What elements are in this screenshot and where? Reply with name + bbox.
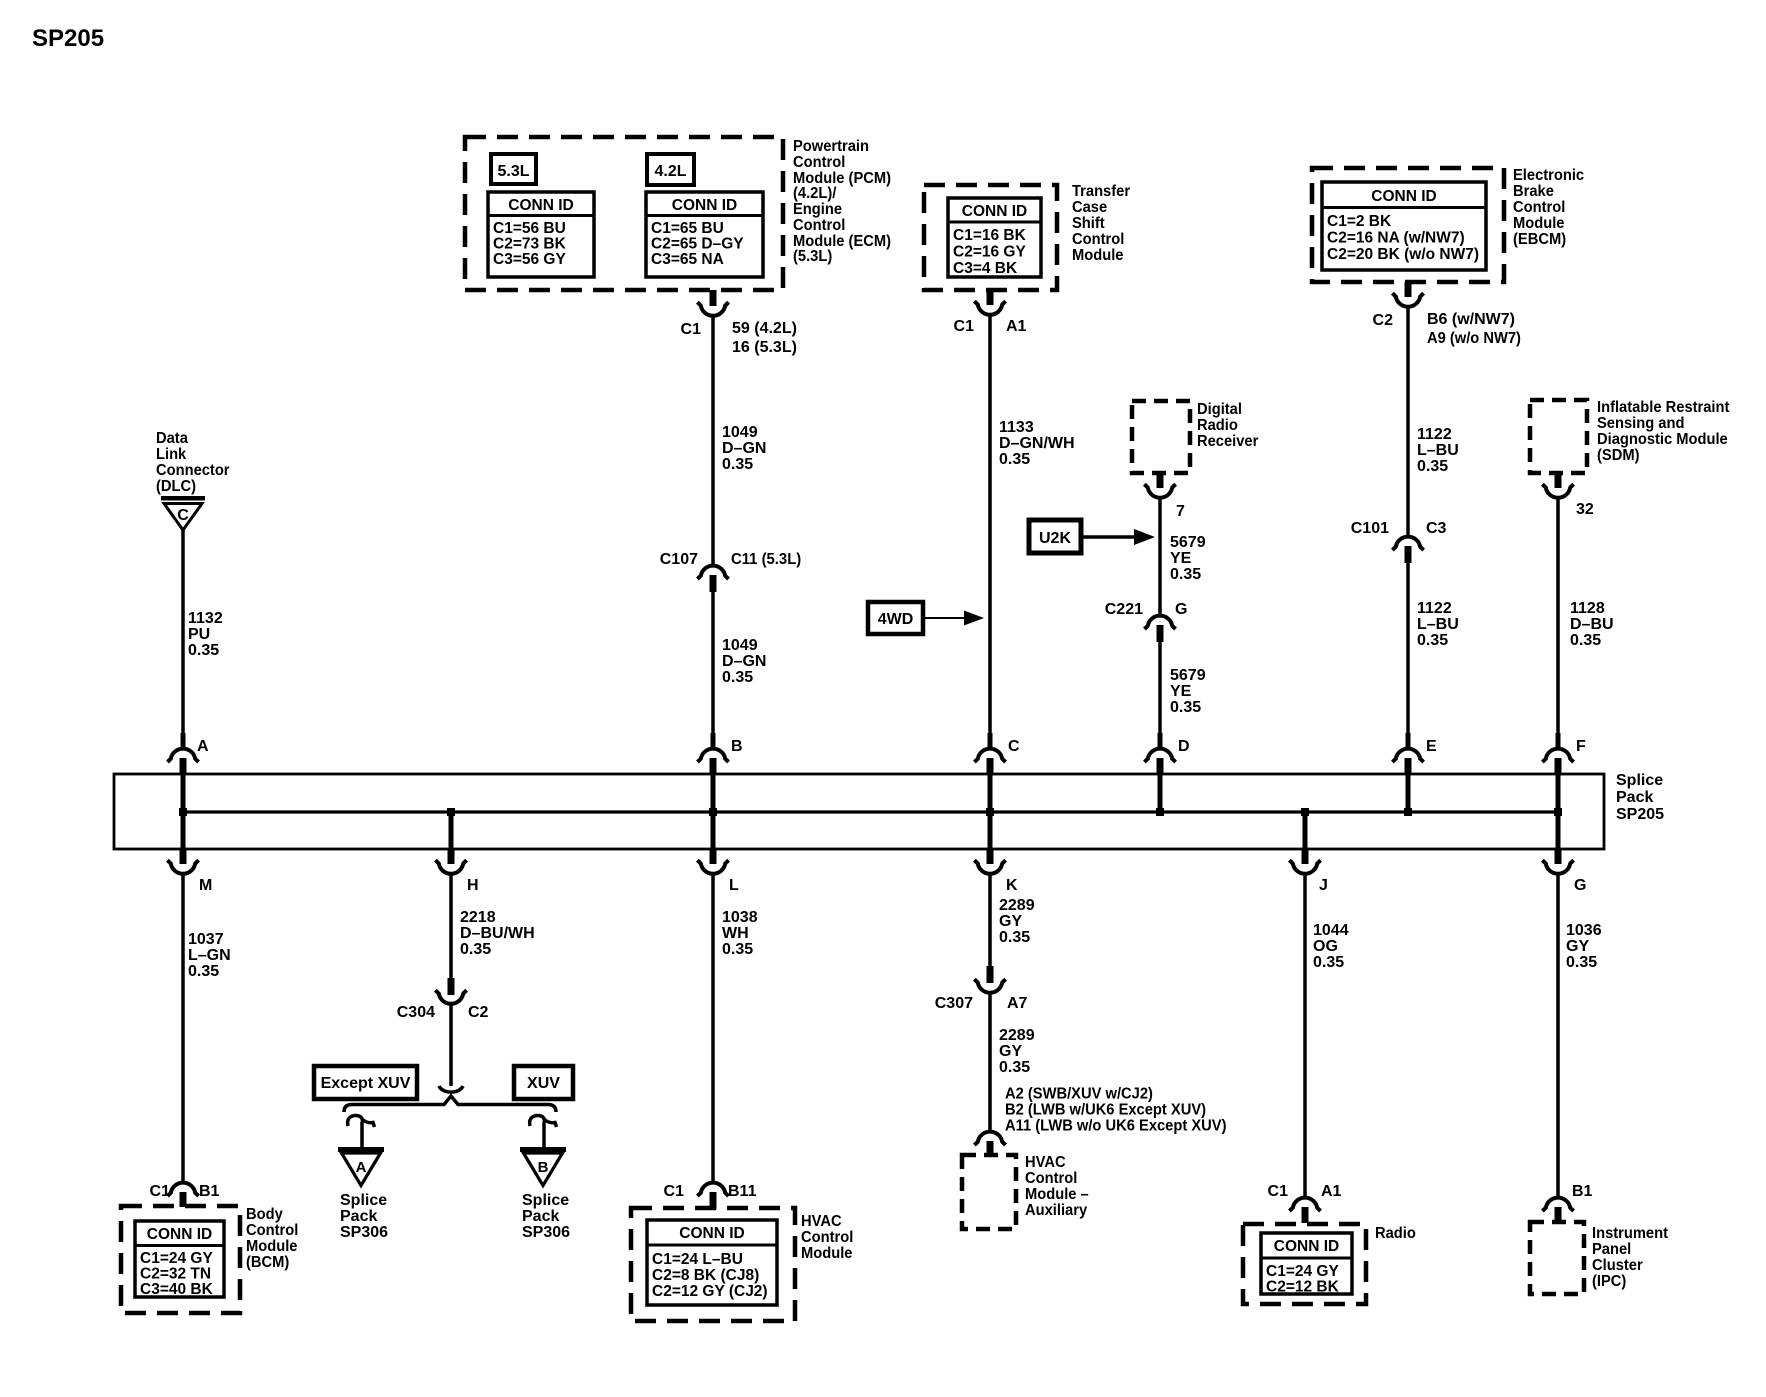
- svg-text:A11 (LWB w/o UK6 Except XUV): A11 (LWB w/o UK6 Except XUV): [1005, 1117, 1226, 1135]
- svg-text:C304: C304: [397, 1004, 435, 1021]
- wire 2218 D-BU/WH (H to C304): [449, 876, 453, 979]
- svg-text:C2=32 TN: C2=32 TN: [140, 1266, 211, 1283]
- svg-text:C3=65 NA: C3=65 NA: [651, 251, 724, 268]
- svg-text:2289: 2289: [999, 1027, 1035, 1044]
- module IPC dashed box: [1530, 1222, 1584, 1294]
- splice pack SP205 outer box: [114, 774, 1604, 849]
- svg-text:0.35: 0.35: [722, 456, 753, 473]
- svg-text:D–BU: D–BU: [1570, 616, 1614, 633]
- connector C304 / C2: [448, 978, 455, 995]
- connector F at splice pack top: [1556, 733, 1561, 747]
- svg-text:C2=16 GY: C2=16 GY: [953, 244, 1026, 261]
- wire 1122 L-BU upper (EBCM to C101): [1406, 309, 1410, 536]
- wire 2289 GY lower (C307 to HVAC aux): [988, 995, 992, 1131]
- wire stub D to bus: [1158, 774, 1163, 812]
- CONN ID table (4.2L): [646, 192, 763, 277]
- svg-text:2218: 2218: [460, 909, 496, 926]
- svg-text:C307: C307: [935, 995, 973, 1012]
- svg-text:Module: Module: [1072, 246, 1124, 264]
- connector C2 at EBCM: [1405, 282, 1412, 297]
- svg-text:C107: C107: [660, 551, 698, 568]
- svg-text:Pack: Pack: [340, 1208, 377, 1225]
- connector E at splice pack top: [1406, 733, 1411, 747]
- svg-text:C1=65 BU: C1=65 BU: [651, 220, 724, 237]
- svg-text:G: G: [1574, 877, 1586, 894]
- svg-text:0.35: 0.35: [1570, 632, 1601, 649]
- callout 4WD box: [868, 602, 923, 634]
- callout U2K box: [1029, 520, 1081, 553]
- svg-text:C2: C2: [468, 1004, 489, 1021]
- branch overbrace: [344, 1096, 556, 1112]
- arrow U2K to wire: [1081, 535, 1136, 539]
- flag to splice pack A: [348, 1115, 375, 1127]
- svg-text:(5.3L): (5.3L): [793, 247, 832, 265]
- wire 1049 D-GN lower (C107 to splice B): [711, 592, 715, 740]
- callout XUV box: [514, 1066, 573, 1099]
- splice pack bus line: [183, 810, 1558, 813]
- module Transfer Case Shift Control dashed box: [924, 185, 1057, 290]
- svg-text:1044: 1044: [1313, 922, 1349, 939]
- svg-text:Splice: Splice: [522, 1192, 569, 1209]
- svg-text:SP205: SP205: [32, 25, 104, 52]
- wire through bar B-L: [711, 774, 716, 849]
- svg-text:Except XUV: Except XUV: [321, 1075, 411, 1092]
- svg-text:B1: B1: [1572, 1183, 1593, 1200]
- svg-text:U2K: U2K: [1039, 530, 1071, 547]
- svg-text:0.35: 0.35: [999, 451, 1030, 468]
- svg-text:C3: C3: [1426, 520, 1447, 537]
- svg-text:J: J: [1319, 877, 1328, 894]
- junction node A/M on bus: [179, 808, 187, 816]
- svg-text:CONN ID: CONN ID: [672, 197, 737, 214]
- svg-text:2289: 2289: [999, 897, 1035, 914]
- svg-text:A9 (w/o NW7): A9 (w/o NW7): [1427, 329, 1521, 347]
- connector B1 at IPC: [1542, 1198, 1573, 1211]
- svg-text:1122: 1122: [1417, 426, 1452, 443]
- svg-text:C2=8 BK (CJ8): C2=8 BK (CJ8): [652, 1267, 759, 1284]
- svg-text:C2=12 BK: C2=12 BK: [1266, 1279, 1340, 1296]
- callout Except XUV box: [314, 1066, 417, 1099]
- svg-text:0.35: 0.35: [188, 642, 219, 659]
- module HVAC aux dashed box: [962, 1155, 1016, 1229]
- svg-text:4WD: 4WD: [878, 611, 914, 628]
- svg-text:5.3L: 5.3L: [497, 163, 529, 180]
- svg-text:C3=40 BK: C3=40 BK: [140, 1281, 214, 1298]
- svg-text:C1: C1: [150, 1183, 171, 1200]
- module radio dashed box: [1243, 1224, 1366, 1304]
- wire 1132 PU (DLC to splice A): [181, 530, 185, 740]
- svg-text:(BCM): (BCM): [246, 1253, 289, 1271]
- wire 1036 GY (G to IPC): [1556, 876, 1560, 1197]
- svg-text:L–GN: L–GN: [188, 947, 231, 964]
- junction node C/K on bus: [986, 808, 994, 816]
- svg-text:OG: OG: [1313, 938, 1338, 955]
- svg-text:C2=20 BK (w/o NW7): C2=20 BK (w/o NW7): [1327, 246, 1479, 263]
- svg-text:1122: 1122: [1417, 600, 1452, 617]
- svg-text:16 (5.3L): 16 (5.3L): [732, 339, 797, 356]
- svg-text:Module: Module: [801, 1244, 853, 1262]
- wire 1037 L-GN (M to BCM): [181, 876, 185, 1182]
- flag to splice pack B: [530, 1115, 557, 1127]
- svg-text:C1=24 L–BU: C1=24 L–BU: [652, 1251, 743, 1268]
- svg-text:C: C: [1008, 738, 1020, 755]
- svg-text:5679: 5679: [1170, 534, 1206, 551]
- connector J at splice pack bottom: [1302, 849, 1309, 864]
- svg-text:GY: GY: [1566, 938, 1589, 955]
- connector C1 at PCM (pins 59/16): [710, 290, 717, 306]
- svg-text:Splice: Splice: [1616, 772, 1663, 789]
- svg-text:L–BU: L–BU: [1417, 442, 1459, 459]
- svg-text:32: 32: [1576, 501, 1594, 518]
- svg-text:C: C: [177, 507, 189, 524]
- svg-text:K: K: [1006, 877, 1018, 894]
- wire 1038 WH (L to HVAC): [711, 876, 715, 1182]
- wire through bar C-K: [988, 774, 993, 849]
- svg-text:F: F: [1576, 738, 1586, 755]
- svg-text:1128: 1128: [1570, 600, 1605, 617]
- svg-text:PU: PU: [188, 626, 210, 643]
- svg-text:(SDM): (SDM): [1597, 446, 1639, 464]
- svg-text:1049: 1049: [722, 424, 758, 441]
- svg-text:Pack: Pack: [1616, 789, 1653, 806]
- svg-text:0.35: 0.35: [188, 963, 219, 980]
- svg-text:E: E: [1426, 738, 1437, 755]
- svg-text:Auxiliary: Auxiliary: [1025, 1201, 1088, 1219]
- connector C107 / C11 (5.3L): [697, 566, 728, 579]
- svg-text:C1=56 BU: C1=56 BU: [493, 220, 566, 237]
- connector C101 / C3: [1392, 537, 1423, 550]
- svg-text:0.35: 0.35: [1417, 458, 1448, 475]
- connector C1/A1 at transfer case: [987, 290, 994, 305]
- svg-text:(DLC): (DLC): [156, 477, 196, 495]
- wire stub J to bus: [1303, 812, 1308, 849]
- svg-text:0.35: 0.35: [722, 669, 753, 686]
- wire end connector at branch: [439, 1086, 463, 1092]
- arrow 4WD to wire C: [923, 617, 966, 619]
- svg-text:D: D: [1178, 738, 1190, 755]
- svg-text:1037: 1037: [188, 931, 224, 948]
- svg-text:B6 (w/NW7): B6 (w/NW7): [1427, 311, 1515, 328]
- connector C307 / A7: [987, 966, 994, 983]
- junction node F/G on bus: [1554, 808, 1562, 816]
- module BCM dashed box: [121, 1206, 240, 1313]
- connector pin 32 at SDM: [1555, 473, 1562, 488]
- svg-text:(IPC): (IPC): [1592, 1272, 1626, 1290]
- svg-text:L–BU: L–BU: [1417, 616, 1459, 633]
- svg-text:GY: GY: [999, 913, 1022, 930]
- svg-text:A1: A1: [1006, 318, 1027, 335]
- junction node E on bus: [1404, 808, 1412, 816]
- connector C1/B11 at HVAC: [697, 1183, 728, 1196]
- connector L at splice pack bottom: [710, 849, 717, 864]
- DLC triangle C symbol: [161, 496, 205, 501]
- module SDM dashed box: [1530, 400, 1587, 473]
- wire through bar A-M: [181, 774, 186, 849]
- svg-text:(EBCM): (EBCM): [1513, 230, 1566, 248]
- svg-text:A1: A1: [1321, 1183, 1342, 1200]
- svg-text:0.35: 0.35: [999, 929, 1030, 946]
- svg-text:Receiver: Receiver: [1197, 432, 1258, 450]
- wire 2289 GY upper (K to C307): [988, 876, 992, 968]
- svg-text:Radio: Radio: [1375, 1224, 1416, 1242]
- svg-text:B1: B1: [199, 1183, 220, 1200]
- svg-text:SP205: SP205: [1616, 806, 1664, 823]
- junction node H on bus: [447, 808, 455, 816]
- triangle A (splice pack SP306): [338, 1147, 384, 1152]
- svg-text:1036: 1036: [1566, 922, 1602, 939]
- svg-text:XUV: XUV: [527, 1075, 560, 1092]
- svg-text:H: H: [467, 877, 479, 894]
- svg-text:YE: YE: [1170, 683, 1192, 700]
- triangle B (splice pack SP306): [520, 1147, 566, 1152]
- wire through bar F-G: [1556, 774, 1561, 849]
- svg-text:CONN ID: CONN ID: [1371, 188, 1436, 205]
- connector D at splice pack top: [1158, 733, 1163, 747]
- svg-text:0.35: 0.35: [1170, 566, 1201, 583]
- wire stub E to bus: [1406, 774, 1411, 812]
- svg-text:0.35: 0.35: [1417, 632, 1448, 649]
- svg-text:YE: YE: [1170, 550, 1192, 567]
- junction node B/L on bus: [709, 808, 717, 816]
- svg-text:A: A: [356, 1159, 367, 1176]
- connector G at splice pack bottom: [1555, 849, 1562, 864]
- CONN ID table (5.3L): [488, 192, 594, 277]
- svg-text:7: 7: [1176, 503, 1185, 520]
- svg-text:SP306: SP306: [522, 1224, 570, 1241]
- svg-text:C1: C1: [664, 1183, 685, 1200]
- svg-text:0.35: 0.35: [1566, 954, 1597, 971]
- svg-text:C3=56 GY: C3=56 GY: [493, 251, 566, 268]
- svg-text:GY: GY: [999, 1043, 1022, 1060]
- svg-text:5679: 5679: [1170, 667, 1206, 684]
- svg-text:D–GN: D–GN: [722, 440, 766, 457]
- svg-text:M: M: [199, 877, 212, 894]
- svg-text:1038: 1038: [722, 909, 758, 926]
- wire 1044 OG (J to radio): [1303, 876, 1307, 1197]
- svg-text:B: B: [731, 738, 743, 755]
- svg-text:CONN ID: CONN ID: [147, 1226, 212, 1243]
- svg-text:C3=4 BK: C3=4 BK: [953, 260, 1018, 277]
- svg-text:0.35: 0.35: [460, 941, 491, 958]
- wire 1049 D-GN upper (PCM C1 to C107): [711, 318, 715, 565]
- connector H at splice pack bottom: [448, 849, 455, 864]
- svg-text:C1=16 BK: C1=16 BK: [953, 227, 1027, 244]
- svg-text:C1: C1: [681, 321, 702, 338]
- module Digital Radio Receiver dashed box: [1132, 401, 1190, 473]
- wire 1128 D-BU (SDM to splice F): [1556, 500, 1560, 741]
- connector B at splice pack top: [711, 733, 716, 747]
- svg-text:CONN ID: CONN ID: [1274, 1238, 1339, 1255]
- svg-text:WH: WH: [722, 925, 749, 942]
- connector K at splice pack bottom: [987, 849, 994, 864]
- module EBCM dashed box: [1312, 168, 1504, 282]
- label 5.3L box: [491, 154, 536, 184]
- svg-text:C1=24 GY: C1=24 GY: [1266, 1263, 1339, 1280]
- wire 5679 YE upper (receiver to C221): [1158, 500, 1162, 615]
- wire C2 to branch point: [449, 1006, 453, 1087]
- svg-text:0.35: 0.35: [1313, 954, 1344, 971]
- svg-text:0.35: 0.35: [722, 941, 753, 958]
- module PCM/ECM dashed box: [465, 137, 783, 290]
- svg-text:59 (4.2L): 59 (4.2L): [732, 320, 797, 337]
- CONN ID table (transfer case): [948, 198, 1041, 277]
- connector C at splice pack top: [988, 733, 993, 747]
- svg-text:A7: A7: [1007, 995, 1028, 1012]
- svg-text:D–BU/WH: D–BU/WH: [460, 925, 535, 942]
- svg-text:L: L: [729, 877, 739, 894]
- connector A at splice pack top: [181, 733, 186, 747]
- svg-text:B: B: [538, 1159, 549, 1176]
- svg-text:C221: C221: [1105, 601, 1143, 618]
- svg-text:CONN ID: CONN ID: [679, 1225, 744, 1242]
- label 4.2L box: [647, 154, 694, 185]
- svg-text:1133: 1133: [999, 419, 1034, 436]
- svg-text:C2=73 BK: C2=73 BK: [493, 236, 567, 253]
- svg-text:1132: 1132: [188, 610, 223, 627]
- svg-text:C1: C1: [954, 318, 975, 335]
- CONN ID table (BCM): [135, 1221, 224, 1297]
- connector pin 7 at digital radio receiver: [1157, 473, 1164, 488]
- svg-text:C11 (5.3L): C11 (5.3L): [731, 551, 801, 569]
- connector C1/B1 at BCM: [167, 1183, 198, 1196]
- CONN ID table (radio): [1261, 1233, 1352, 1294]
- svg-text:C1: C1: [1268, 1183, 1289, 1200]
- connector at HVAC aux: [974, 1132, 1005, 1145]
- svg-text:SP306: SP306: [340, 1224, 388, 1241]
- svg-text:0.35: 0.35: [1170, 699, 1201, 716]
- junction node D on bus: [1156, 808, 1164, 816]
- svg-text:4.2L: 4.2L: [654, 163, 686, 180]
- svg-text:CONN ID: CONN ID: [508, 197, 573, 214]
- svg-text:0.35: 0.35: [999, 1059, 1030, 1076]
- wire 1122 L-BU lower (C101 to splice E): [1406, 563, 1410, 740]
- junction node J on bus: [1301, 808, 1309, 816]
- svg-text:B11: B11: [728, 1183, 757, 1200]
- svg-text:C2=65 D–GY: C2=65 D–GY: [651, 236, 744, 253]
- svg-text:C2=12 GY (CJ2): C2=12 GY (CJ2): [652, 1283, 768, 1300]
- CONN ID table (EBCM): [1322, 182, 1486, 270]
- connector M at splice pack bottom: [180, 849, 187, 864]
- svg-text:C1=24 GY: C1=24 GY: [140, 1250, 213, 1267]
- wire 1133 D-GN/WH (transfer case to splice C): [988, 317, 992, 741]
- module HVAC control dashed box: [631, 1208, 795, 1321]
- svg-text:Splice: Splice: [340, 1192, 387, 1209]
- svg-text:1049: 1049: [722, 637, 758, 654]
- svg-text:Pack: Pack: [522, 1208, 559, 1225]
- CONN ID table (HVAC): [647, 1220, 777, 1305]
- svg-text:C1=2 BK: C1=2 BK: [1327, 213, 1392, 230]
- svg-text:D–GN/WH: D–GN/WH: [999, 435, 1075, 452]
- svg-text:G: G: [1175, 601, 1187, 618]
- svg-text:C2: C2: [1373, 312, 1394, 329]
- connector C1/A1 at radio: [1289, 1198, 1320, 1211]
- wire 5679 YE lower (C221 to splice D): [1158, 642, 1162, 740]
- svg-text:A: A: [197, 738, 209, 755]
- svg-text:CONN ID: CONN ID: [962, 203, 1027, 220]
- svg-text:D–GN: D–GN: [722, 653, 766, 670]
- connector C221 / G: [1144, 616, 1175, 629]
- svg-text:C101: C101: [1351, 520, 1389, 537]
- wire stub H to bus: [449, 812, 454, 849]
- svg-text:C2=16 NA (w/NW7): C2=16 NA (w/NW7): [1327, 230, 1465, 247]
